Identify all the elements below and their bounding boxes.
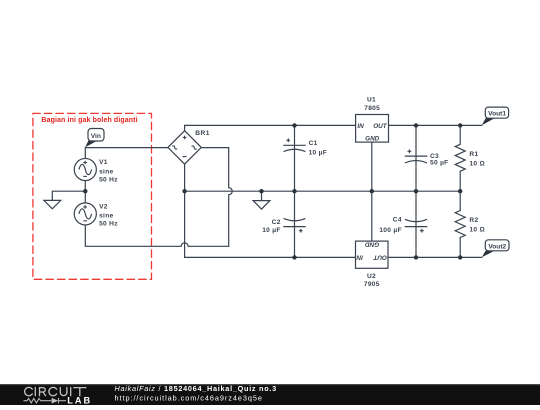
wire left ground branch xyxy=(52,191,85,200)
U1 pin labels xyxy=(357,123,387,142)
capacitor C4 xyxy=(405,219,428,232)
wire Vin row (V1 top to BR1 left) xyxy=(85,148,168,159)
label C2 xyxy=(262,219,281,234)
label C1 xyxy=(309,140,328,156)
svg-text:Bagian ini gak boleh diganti: Bagian ini gak boleh diganti xyxy=(41,117,137,124)
wire V1-V2 link xyxy=(84,181,86,203)
svg-text:Vin: Vin xyxy=(91,133,101,140)
svg-text:10 Ω: 10 Ω xyxy=(469,227,484,234)
svg-text:10 µF: 10 µF xyxy=(262,227,281,234)
voltage source V2 xyxy=(74,203,96,225)
svg-text:sine: sine xyxy=(99,168,113,175)
node Vout1 flag xyxy=(482,107,509,125)
svg-text:IN: IN xyxy=(356,254,363,261)
U2 pin labels (rotated 180) xyxy=(356,241,387,261)
wire C1 column xyxy=(294,125,296,191)
svg-text:GND: GND xyxy=(365,241,380,248)
label V1 xyxy=(99,159,118,183)
svg-text:100 µF: 100 µF xyxy=(379,227,401,234)
wire C2 column xyxy=(294,191,296,257)
wire V2 bottom to BR1 right column with hop xyxy=(85,225,228,246)
svg-text:50 Hz: 50 Hz xyxy=(99,176,118,183)
ground (mid rail) xyxy=(253,201,270,210)
svg-text:http://circuitlab.com/c46a9rz4: http://circuitlab.com/c46a9rz4e3q5e xyxy=(115,393,263,402)
label V2 xyxy=(99,203,118,227)
svg-text:R1: R1 xyxy=(469,151,478,158)
svg-text:IN: IN xyxy=(357,123,364,130)
svg-text:50 µF: 50 µF xyxy=(430,160,449,167)
regulator U1 xyxy=(356,115,389,143)
wire bottom rail right (U2 to Vout2) xyxy=(388,256,482,258)
svg-text:R2: R2 xyxy=(469,217,478,224)
ground (left, source midpoint) xyxy=(44,200,61,208)
svg-text:50 Hz: 50 Hz xyxy=(99,221,118,228)
svg-text:7905: 7905 xyxy=(364,281,380,288)
capacitor C3 xyxy=(405,149,428,163)
resistor R2 xyxy=(455,211,465,238)
capacitor C2 xyxy=(283,218,305,232)
label U2 xyxy=(364,273,380,288)
svg-text:GND: GND xyxy=(365,135,380,142)
label R1 xyxy=(469,151,484,168)
svg-text:LAB: LAB xyxy=(67,395,92,405)
wire R1 leads xyxy=(459,125,461,191)
label C4 xyxy=(379,217,401,234)
wire top rail left (BR1 top to U1 IN) xyxy=(185,125,356,130)
junction dots xyxy=(83,123,462,259)
red dashed annotation box xyxy=(33,113,152,279)
label R2 xyxy=(469,217,484,234)
wire top rail right (U1 OUT to Vout1) xyxy=(389,124,482,126)
svg-text:C2: C2 xyxy=(272,219,281,226)
regulator U2 (flipped) xyxy=(356,241,389,268)
node Vout2 flag xyxy=(482,240,509,257)
svg-text:U1: U1 xyxy=(367,97,376,104)
svg-text:7805: 7805 xyxy=(364,105,380,112)
svg-text:C4: C4 xyxy=(393,217,402,224)
svg-text:OUT: OUT xyxy=(372,254,387,261)
label U1 xyxy=(364,97,380,112)
wire C4 column xyxy=(415,191,417,257)
svg-text:10 Ω: 10 Ω xyxy=(469,160,484,167)
svg-text:C1: C1 xyxy=(309,140,318,147)
wire mid ground stub xyxy=(261,191,263,200)
svg-text:10 µF: 10 µF xyxy=(309,149,328,156)
wire BR1 bottom vertex down to bottom rail xyxy=(185,164,356,257)
wire R2 leads xyxy=(459,191,461,257)
wire mid ground rail xyxy=(185,190,461,192)
svg-text:V1: V1 xyxy=(99,159,108,166)
resistor R1 xyxy=(455,144,465,171)
svg-text:U2: U2 xyxy=(367,273,376,280)
footer bar xyxy=(0,384,540,405)
voltage source V1 xyxy=(74,158,96,180)
svg-text:OUT: OUT xyxy=(373,123,388,130)
svg-text:BR1: BR1 xyxy=(195,130,210,137)
svg-text:HaikalFaiz / 18524064_Haikal_Q: HaikalFaiz / 18524064_Haikal_Quiz no.3 xyxy=(115,384,277,393)
wire U1 GND to U2 GND column xyxy=(371,142,373,241)
wire C3 column xyxy=(415,125,417,191)
capacitor C1 xyxy=(283,138,305,151)
wire BR1 right vertex down column with hop over mid rail xyxy=(201,148,232,247)
footer logo resistor-diode glyph xyxy=(24,398,67,403)
svg-text:Vout1: Vout1 xyxy=(488,111,506,118)
svg-text:Vout2: Vout2 xyxy=(488,243,506,250)
footer logo CIRCUIT (drawn as strokes) xyxy=(25,387,86,395)
bridge rectifier BR1 xyxy=(168,131,201,164)
svg-text:sine: sine xyxy=(99,213,113,220)
node Vin flag xyxy=(85,129,104,148)
svg-text:V2: V2 xyxy=(99,203,108,210)
label C3 xyxy=(430,153,449,167)
